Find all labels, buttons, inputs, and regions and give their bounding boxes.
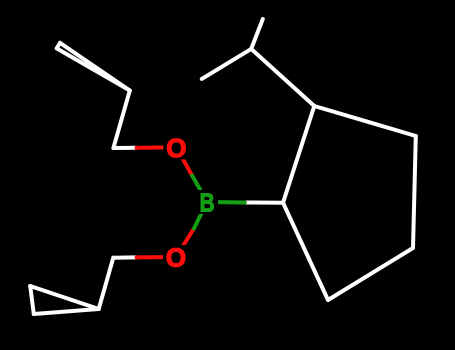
node O2 glyph blackout xyxy=(163,245,189,269)
wire red half of O2-Cb bond xyxy=(137,255,176,259)
svg-text:O: O xyxy=(166,133,186,163)
wire red half of O1-Ct bond xyxy=(137,145,177,149)
svg-text:O: O xyxy=(166,243,186,273)
wire green half of B-O1 bond xyxy=(192,176,207,202)
wire bond C2t-Bt (cyclopropyl edge) xyxy=(60,43,130,91)
node O1 glyph blackout xyxy=(163,135,189,159)
wire bond Ct-C2t (O top alkyl CH2-CH) xyxy=(113,91,129,148)
ring edge V5-V1 xyxy=(283,203,328,300)
wire bond V2-C7 (ring to isopropyl CH) xyxy=(251,49,314,106)
wire bond At-Bt (cyclopropyl closing edge) xyxy=(57,43,60,49)
wire bond C2t-At (cyclopropyl edge) xyxy=(57,48,130,90)
ring edge V2-V3 xyxy=(314,106,416,136)
svg-text:B: B xyxy=(200,189,215,217)
wire bond Cb-C2b (O bottom alkyl CH2-CH) xyxy=(99,258,114,309)
wire bond C2b-Bb (cyclopropyl edge) xyxy=(34,309,99,314)
wire bond C2b-Ab (cyclopropyl edge) xyxy=(30,286,99,309)
ring edge V3-V4 xyxy=(413,136,416,248)
node B glyph blackout xyxy=(197,190,219,214)
wire green half of B-V1 bond xyxy=(207,200,245,205)
wire white half of O2-Cb bond xyxy=(113,255,136,259)
wire green half of B-O2 bond xyxy=(194,202,207,228)
ring edge V4-V5 xyxy=(328,248,413,300)
wire bond C7-C9 (methyl stub) xyxy=(251,19,263,49)
wire bond C7-C8 (methyl) xyxy=(202,49,251,79)
wire white half of O1-Ct bond xyxy=(113,146,136,150)
wire red half of O2-B bond xyxy=(176,228,194,257)
wire bond Ab-Bb (cyclopropyl closing edge) xyxy=(30,286,34,314)
wire white half of B-V1 bond xyxy=(245,201,283,205)
wire red half of O1-B bond xyxy=(176,147,192,175)
ring edge V1-V2 xyxy=(283,106,314,203)
